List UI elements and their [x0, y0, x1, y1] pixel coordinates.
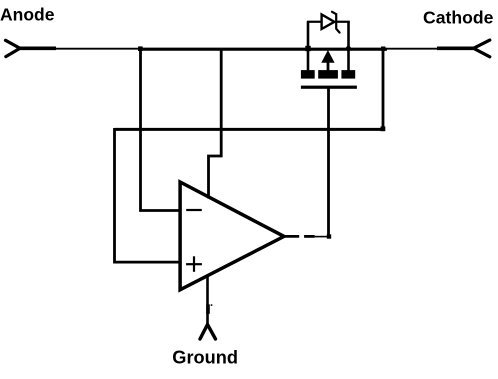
- terminal Ground chevron: [200, 325, 216, 340]
- junction dot at (383,48.5): [381, 47, 385, 51]
- wire vertical from top net to inverting input: [141, 49, 181, 211]
- transistor Q1 body diode: left lead vertical: [307, 22, 310, 72]
- wire horizontal feedback net y=129: [115, 128, 384, 131]
- transistor Q1 drain contact (left black pad): [301, 70, 315, 79]
- svg-text:Ground: Ground: [172, 348, 238, 368]
- transistor Q1 gate bar: [301, 86, 357, 89]
- transistor Q1 body arrow stem: [327, 62, 330, 71]
- junction dot round at (348.4,48.6): [346, 46, 351, 51]
- wire vertical left to non-inverting input: [115, 128, 181, 262]
- terminal Cathode (output pin chevron): [437, 40, 490, 57]
- wire ground pin thicker segment: [206, 304, 210, 313]
- junction dot at (383,128): [381, 126, 386, 131]
- wire top net: cathode thin segment: [387, 48, 438, 50]
- op-amp U1 plus symbol: [186, 256, 202, 272]
- transistor Q1 source contact (right black pad): [341, 70, 355, 79]
- wire vertical from top net to op-amp supply pin (with jog): [209, 49, 222, 199]
- junction dot at top net x=140: [138, 46, 143, 51]
- transistor Q1 body diode: right lead vertical: [347, 22, 350, 72]
- wire top net: anode thin segment: [55, 48, 139, 50]
- junction dot square at (308,48.5): [305, 46, 310, 51]
- diode D1 triangle: [322, 14, 335, 29]
- svg-text:Cathode: Cathode: [423, 8, 494, 28]
- terminal Anode (input pin chevron): [6, 40, 57, 56]
- op-amp U1 minus symbol: [186, 209, 202, 211]
- junction dot at gate/output (329,236.6): [327, 234, 331, 238]
- op-amp U1 triangle: [180, 182, 284, 290]
- diode D1 anode wire: [307, 21, 322, 23]
- wire vertical right from top net down to feedback net: [382, 49, 385, 130]
- svg-text:Anode: Anode: [0, 5, 55, 25]
- diode D1 zener cathode bar with bent ends: [332, 12, 340, 33]
- wire top net: thick middle segment: [138, 48, 387, 51]
- diode D1 cathode wire: [336, 21, 350, 23]
- wire op-amp ground pin: [206, 277, 209, 326]
- wire gate stem down to op-amp output: [327, 89, 330, 238]
- transistor Q1 body arrow (filled, pointing up at channel): [321, 50, 334, 63]
- transistor Q1 body contact (middle black pad): [318, 70, 338, 79]
- wire op-amp output dashes: [283, 235, 329, 238]
- stray dot artifact near ground pin: [211, 304, 213, 306]
